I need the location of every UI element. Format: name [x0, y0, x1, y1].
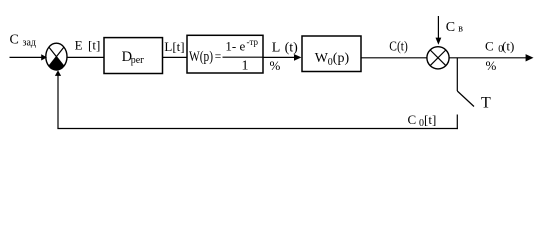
block W0(p) (plant): [302, 36, 361, 72]
svg-text:L: L: [272, 40, 281, 55]
svg-text:C: C: [408, 112, 417, 127]
wire input arrow into summing junction S1: [10, 54, 48, 60]
wire lower switch stub: [456, 115, 458, 130]
block W(p) = (1-e^-tp)/1: [187, 35, 263, 73]
wire feedback riser with arrow into S1 bottom: [55, 70, 61, 128]
svg-text:L[t]: L[t]: [164, 39, 184, 54]
svg-text:рег: рег: [131, 55, 145, 66]
svg-text:E: E: [75, 38, 83, 53]
svg-text:=: =: [215, 51, 222, 63]
svg-text:(p): (p): [333, 51, 350, 66]
block Dreg (regulator): [104, 38, 163, 74]
wire disturbance input arrow into S2 from top: [436, 16, 442, 45]
node L(t) percent label: [270, 40, 299, 73]
svg-text:%: %: [270, 58, 281, 73]
svg-text:(t): (t): [285, 40, 299, 55]
svg-text:1- e: 1- e: [225, 38, 245, 53]
svg-text:C: C: [485, 39, 494, 54]
svg-text:C(t): C(t): [389, 39, 408, 54]
summing junction S2: [427, 47, 449, 69]
svg-text:в: в: [458, 24, 463, 35]
wire S1 to regulator block: [67, 56, 104, 58]
wire tap down from output line to switch: [456, 58, 458, 91]
svg-text:%: %: [486, 58, 497, 73]
svg-text:(t): (t): [502, 39, 514, 54]
svg-text:W(p): W(p): [189, 49, 213, 65]
wire W0(p) to summing junction S2: [361, 57, 427, 59]
svg-text:зад: зад: [23, 38, 36, 49]
wire W(p) to W0(p) with arrow: [263, 54, 302, 61]
node C0[t] feedback label: [408, 112, 437, 129]
svg-text:C: C: [446, 20, 455, 35]
wire S2 to output with arrow: [449, 54, 533, 61]
wire Dreg to W(p) block: [163, 56, 188, 58]
svg-text:[t]: [t]: [424, 112, 436, 127]
svg-text:T: T: [481, 95, 491, 112]
switch T blade (open contact): [457, 91, 474, 107]
svg-text:-тр: -тр: [247, 37, 259, 47]
svg-text:[t]: [t]: [88, 38, 100, 53]
wire feedback bottom horizontal: [57, 128, 458, 130]
node Cv (disturbance label): [446, 20, 463, 35]
node Czad (setpoint input label): [10, 33, 36, 49]
summing junction S1: [46, 43, 67, 70]
svg-text:C: C: [10, 33, 19, 48]
svg-text:1: 1: [242, 59, 249, 74]
node C0(t) output label: [485, 39, 514, 73]
svg-text:W: W: [315, 51, 329, 66]
